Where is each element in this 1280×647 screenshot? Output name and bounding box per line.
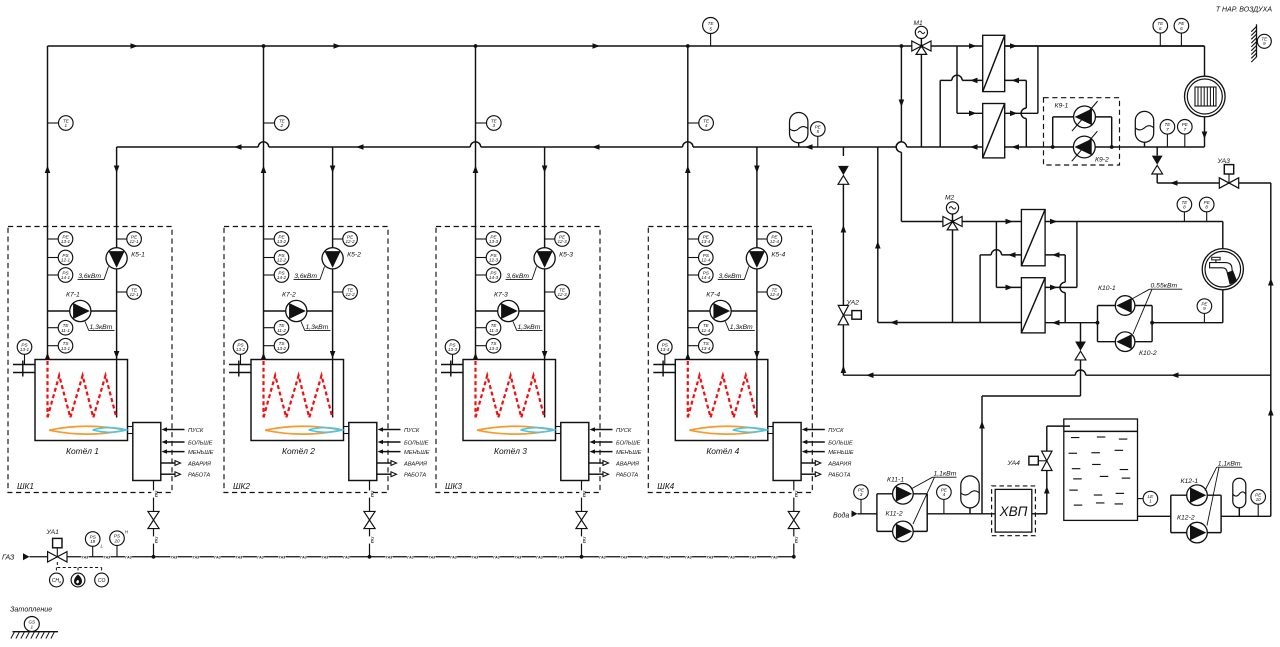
svg-text:ГАЗ: ГАЗ — [664, 555, 671, 559]
svg-text:ГАЗ: ГАЗ — [558, 555, 565, 559]
gas line mark — [151, 536, 155, 543]
HX4 primary inlet branch — [995, 222, 997, 288]
svg-text:3,6кВт: 3,6кВт — [506, 273, 529, 280]
svg-text:4: 4 — [705, 123, 708, 128]
sensor TE11-3 — [476, 327, 487, 329]
pump group K11 parallel branch — [876, 494, 878, 532]
boiler 4 body — [675, 360, 768, 441]
pump K7-2 recirculation line — [264, 310, 333, 312]
radiator supply drop — [1204, 46, 1206, 76]
feed water pipe — [858, 513, 877, 515]
pump K12-2 — [1187, 522, 1208, 543]
svg-text:ШК2: ШК2 — [233, 482, 250, 491]
svg-text:CO: CO — [98, 578, 106, 584]
boiler 4 outlet pipe (left riser) — [687, 46, 689, 360]
gas line mark — [557, 555, 564, 559]
HX2 secondary supply arrow — [1010, 111, 1018, 117]
svg-text:ПУСК: ПУСК — [616, 428, 632, 434]
boiler 1 burner flame orange — [49, 426, 126, 434]
HX2 secondary return arrow — [1012, 144, 1020, 150]
boiler 4 heating element red coil — [687, 361, 689, 418]
boiler 4 burner flame blue — [733, 428, 767, 433]
svg-text:ГАЗ: ГАЗ — [386, 555, 393, 559]
svg-text:К9-2: К9-2 — [1095, 157, 1109, 164]
boiler 4 gas drop from control box — [793, 481, 795, 512]
boiler 1 outlet pipe (left riser) — [47, 46, 49, 360]
gas line mark — [450, 555, 457, 559]
flood sensor ground — [13, 631, 59, 633]
sensor PE12-3 — [476, 238, 487, 240]
tank water dashes — [1071, 437, 1080, 439]
HX1 secondary return arrow — [1012, 78, 1020, 84]
boiler 3 control box — [561, 423, 589, 481]
node gas main junction boiler 3 — [580, 555, 584, 559]
return header pipe — [117, 146, 259, 148]
svg-text:МЕНЬШЕ: МЕНЬШЕ — [616, 450, 642, 456]
svg-text:ШК1: ШК1 — [17, 482, 34, 491]
boiler 3 signal РАБОТА — [589, 473, 603, 475]
svg-text:ГАЗ: ГАЗ — [214, 555, 221, 559]
return flow arrow 4 — [805, 144, 813, 150]
boiler 2 body — [251, 360, 344, 441]
HX4 primary inlet arrow — [1006, 285, 1014, 291]
sensor PS12-1 — [48, 257, 59, 259]
svg-text:ШК3: ШК3 — [445, 482, 462, 491]
check valve on make-up riser — [838, 166, 849, 175]
pump K11-2 — [893, 521, 914, 542]
HX3 secondary return arrow — [1052, 252, 1060, 258]
svg-text:ГАЗ: ГАЗ — [599, 555, 606, 559]
svg-text:20: 20 — [113, 538, 120, 543]
heat exchanger HX4 — [1021, 278, 1045, 333]
sensor TE1 on boiler 1 outlet — [48, 122, 59, 124]
boiler 1 inlet flow arrow upper — [114, 166, 120, 174]
gas line mark — [536, 555, 543, 559]
svg-text:ГАЗ: ГАЗ — [82, 555, 89, 559]
svg-text:ГАЗ: ГАЗ — [154, 491, 158, 498]
heat exchanger HX3 — [1021, 210, 1045, 266]
tap return drop — [1222, 290, 1224, 323]
gas line mark — [749, 555, 756, 559]
sensor TE3 on boiler 3 outlet — [476, 122, 487, 124]
boiler 1 control box — [133, 423, 161, 481]
make-up riser to return header — [842, 147, 844, 156]
node gas main junction boiler 4 — [792, 555, 796, 559]
svg-text:К9-1: К9-1 — [1055, 103, 1069, 110]
pump K7-4 recirculation line — [688, 310, 757, 312]
svg-text:3: 3 — [860, 492, 863, 497]
pump K5-2 boiler circulation — [322, 248, 343, 269]
boiler 1 body — [35, 360, 128, 441]
boiler 3 gas shut-off valve — [576, 511, 587, 520]
HX2 primary inlet arrow — [969, 111, 977, 117]
svg-text:12-3: 12-3 — [557, 292, 567, 297]
boiler 1 inlet pipe (right drop) — [116, 147, 118, 360]
boiler 2 outlet flow arrow lower — [261, 353, 267, 361]
boiler 2 gas stub with flange — [229, 364, 251, 366]
boiler 4 signal ПУСК — [807, 429, 825, 431]
treated water arrow — [1044, 486, 1050, 494]
svg-text:ГАЗ: ГАЗ — [472, 555, 479, 559]
gas line mark — [642, 555, 649, 559]
boiler 1 outlet flow arrow upper — [45, 166, 51, 174]
gas line mark — [579, 536, 583, 543]
expansion vessel radiator circuit — [1135, 111, 1153, 142]
sensor PS13-4 burner pressure — [664, 355, 666, 365]
boiler 3 outlet flow arrow lower — [473, 353, 479, 361]
boiler 2 heating element red coil — [262, 361, 264, 418]
boiler 3 signal БОЛЬШЕ — [595, 441, 613, 443]
sensor TE5 on supply header — [710, 34, 712, 47]
make-up riser arrow upper — [1268, 278, 1274, 286]
DHW primary return riser — [877, 147, 879, 323]
gas line mark — [343, 555, 350, 559]
sensor PE4 — [943, 500, 945, 514]
boiler 1 burner link lines — [128, 426, 133, 428]
svg-text:ГАЗ: ГАЗ — [728, 555, 735, 559]
svg-text:13-1: 13-1 — [61, 346, 71, 351]
sensor PE12-2 on inlet — [333, 238, 344, 240]
boiler 3 burner flame orange — [477, 426, 554, 434]
svg-text:12-3: 12-3 — [557, 239, 567, 244]
boiler 4 gas stub with flange — [653, 364, 675, 366]
return header hop over x=475 — [470, 142, 480, 147]
svg-text:3,6кВт: 3,6кВт — [719, 273, 742, 280]
node supply-M2 branch — [900, 44, 904, 48]
sensor PS19 gas pressure low — [92, 546, 94, 557]
svg-text:К12-2: К12-2 — [1177, 515, 1195, 522]
svg-text:13-1: 13-1 — [61, 239, 71, 244]
boiler 3 burner flame blue — [521, 428, 555, 433]
boiler 2 burner flame orange — [265, 426, 342, 434]
svg-text:ГАЗ: ГАЗ — [794, 491, 798, 498]
boiler unit 2 enclosure ШК2 dashed box — [224, 227, 388, 493]
HX1 primary inlet arrow — [969, 43, 977, 49]
heat exchanger HX1 — [983, 35, 1005, 91]
svg-text:ГАЗ: ГАЗ — [771, 555, 778, 559]
gas line mark — [103, 555, 110, 559]
supply header pipe — [48, 45, 983, 47]
svg-text:12-4: 12-4 — [701, 258, 711, 263]
boiler unit 3 enclosure ШК3 dashed box — [436, 227, 600, 493]
boiler 4 inlet flow arrow upper — [754, 166, 760, 174]
sensor PE12-1 — [48, 238, 59, 240]
sensor TS13-2 — [264, 345, 275, 347]
supply flow arrow 1 — [131, 43, 139, 49]
boiler 1 heating element red coil — [46, 361, 48, 418]
sensor PE8 — [1206, 212, 1208, 222]
boiler 2 outlet flow arrow upper — [261, 166, 267, 174]
M1 bypass stem to return — [920, 54, 922, 147]
svg-text:УА1: УА1 — [46, 529, 60, 536]
svg-text:11-4: 11-4 — [701, 328, 710, 333]
boiler 4 burner link lines — [768, 426, 773, 428]
gas line mark — [428, 555, 435, 559]
return flow arrow 3 — [592, 144, 600, 150]
gas line mark — [471, 555, 478, 559]
svg-text:11-1: 11-1 — [61, 328, 70, 333]
flood sensor GS — [24, 617, 39, 632]
svg-text:ГАЗ: ГАЗ — [536, 555, 543, 559]
sensor PS14-4 — [688, 274, 699, 276]
svg-text:К7-2: К7-2 — [282, 292, 296, 299]
gas line mark — [792, 490, 796, 497]
make-up arrow right — [1171, 372, 1179, 378]
svg-text:АВАРИЯ: АВАРИЯ — [827, 461, 851, 467]
boiler 3 inlet flow arrow lower — [542, 351, 548, 359]
gas inlet arrow — [23, 553, 30, 560]
boiler 4 outlet flow arrow upper — [685, 166, 691, 174]
sensor TE8 — [1183, 212, 1185, 222]
boiler 1 signal АВАРИЯ — [161, 462, 175, 464]
boiler 4 outlet flow arrow lower — [685, 353, 691, 361]
svg-text:БОЛЬШЕ: БОЛЬШЕ — [188, 440, 213, 446]
svg-text:4: 4 — [943, 492, 946, 497]
boiler 3 heating element red coil — [474, 361, 476, 418]
svg-text:Котёл 3: Котёл 3 — [494, 446, 527, 456]
return flow arrow 1 — [234, 144, 242, 150]
gas line mark — [663, 555, 670, 559]
gas line mark — [278, 555, 285, 559]
boiler 3 burner link lines — [556, 426, 561, 428]
radiator return drop — [1204, 117, 1206, 147]
svg-text:К7-1: К7-1 — [66, 292, 80, 299]
gas line mark — [514, 555, 521, 559]
svg-text:ГАЗ: ГАЗ — [343, 555, 350, 559]
svg-text:ШК4: ШК4 — [657, 482, 674, 491]
svg-text:7: 7 — [1184, 127, 1187, 132]
svg-text:14-2: 14-2 — [277, 275, 287, 280]
sensor TE2 on boiler 2 outlet — [264, 122, 275, 124]
boiler 4 burner flame orange — [689, 426, 766, 434]
svg-text:К7-4: К7-4 — [706, 292, 720, 299]
boiler 1 signal ПУСК — [167, 429, 185, 431]
boiler 3 body — [463, 360, 556, 441]
sensor PS13-1 burner pressure — [24, 355, 26, 365]
svg-text:ГАЗ: ГАЗ — [370, 537, 374, 544]
svg-text:11-2: 11-2 — [277, 328, 286, 333]
HX3 primary outlet pipe — [1002, 254, 1022, 256]
svg-text:ГАЗ: ГАЗ — [257, 555, 264, 559]
sensor PS14-1 — [48, 274, 59, 276]
boiler 3 inlet pipe (right drop) — [544, 147, 546, 360]
sensor PE12-4 on inlet — [757, 238, 768, 240]
DHW cold make-up check valve — [1080, 323, 1082, 342]
boiler 4 control box — [773, 423, 801, 481]
boiler 1 inlet flow arrow lower — [114, 351, 120, 359]
make-up riser arrow above УА2 — [841, 225, 847, 233]
radiator return arrow — [1202, 132, 1208, 140]
node supply-boiler4 — [686, 44, 690, 48]
gas line mark — [321, 555, 328, 559]
return header hop over x=901 — [896, 142, 906, 147]
svg-text:1: 1 — [65, 123, 68, 128]
sensor PS13-2 burner pressure — [240, 355, 242, 365]
boiler 2 inlet flow arrow lower — [330, 351, 336, 359]
svg-text:TE: TE — [708, 21, 715, 26]
HX1 primary outlet pipe — [962, 79, 983, 81]
gas line mark — [728, 555, 735, 559]
pump group K9 dashed box — [1044, 98, 1120, 165]
boiler 2 gas shut-off valve — [364, 511, 375, 520]
secondary return drop to HX1 — [1025, 80, 1027, 108]
boiler 2 control box — [349, 423, 377, 481]
solenoid valve УА1 on gas main — [48, 552, 67, 562]
gas line mark — [192, 555, 199, 559]
boiler 2 signal МЕНЬШЕ — [383, 451, 401, 453]
svg-text:ГАЗ: ГАЗ — [104, 555, 111, 559]
svg-text:МЕНЬШЕ: МЕНЬШЕ — [404, 450, 430, 456]
boiler 2 inlet flow arrow upper — [330, 166, 336, 174]
sensor TE12-2 on inlet — [333, 291, 344, 293]
make-up arrow left — [866, 372, 874, 378]
boiler 3 inlet flow arrow upper — [542, 166, 548, 174]
gas line mark — [151, 490, 155, 497]
boiler 1 burner flame blue — [93, 428, 127, 433]
gas line mark — [706, 555, 713, 559]
svg-text:ГАЗ: ГАЗ — [685, 555, 692, 559]
svg-text:М1: М1 — [914, 20, 923, 27]
svg-text:12-4: 12-4 — [770, 292, 780, 297]
HX1 secondary supply arrow — [1010, 43, 1018, 49]
svg-text:РАБОТА: РАБОТА — [404, 473, 426, 479]
gas line mark — [620, 555, 627, 559]
svg-text:ГАЗ: ГАЗ — [642, 555, 649, 559]
svg-text:19: 19 — [90, 539, 96, 544]
svg-text:3: 3 — [493, 123, 496, 128]
tank outlet pipe — [1138, 515, 1171, 517]
pump K5-3 boiler circulation — [534, 248, 555, 269]
svg-text:К5-1: К5-1 — [131, 252, 145, 259]
svg-text:Т НАР. ВОЗДУХА: Т НАР. ВОЗДУХА — [1216, 7, 1273, 14]
svg-text:МЕНЬШЕ: МЕНЬШЕ — [188, 450, 214, 456]
svg-text:12-1: 12-1 — [61, 258, 71, 263]
make-up riser arrow lower — [1268, 408, 1274, 416]
pump K5-4 boiler circulation — [746, 248, 767, 269]
pump group K10 parallel branch — [1097, 306, 1099, 342]
boiler 1 gas shut-off valve — [148, 511, 159, 520]
make-up line to УА3 — [1157, 182, 1271, 184]
svg-text:РАБОТА: РАБОТА — [616, 473, 638, 479]
sensor TE12-3 on inlet — [545, 291, 556, 293]
svg-text:К10-1: К10-1 — [1098, 285, 1116, 292]
HX3 primary inlet pipe — [962, 221, 1021, 223]
sensor TE12-4 on inlet — [757, 291, 768, 293]
svg-text:ГАЗ: ГАЗ — [322, 555, 329, 559]
svg-text:6: 6 — [1159, 26, 1162, 31]
pump K11-1 — [893, 484, 914, 505]
HX2 secondary supply pipe — [1005, 112, 1038, 114]
supply flow arrow 2 — [334, 43, 342, 49]
outside wall hatching — [1256, 24, 1258, 57]
svg-text:13-2: 13-2 — [236, 347, 246, 352]
flame detector — [71, 573, 85, 587]
pump K5-1 boiler circulation — [106, 248, 127, 269]
svg-text:1,1кВт: 1,1кВт — [1218, 461, 1241, 468]
svg-text:К5-3: К5-3 — [559, 252, 573, 259]
boiler 2 gas drop from control box — [369, 481, 371, 512]
HX4 secondary return arrow — [1052, 320, 1060, 326]
node supply-boiler3 — [474, 44, 478, 48]
sensor PE12-2 — [264, 238, 275, 240]
boiler 1 outlet flow arrow lower — [45, 353, 51, 361]
sensor TE4 on boiler 4 outlet — [688, 122, 699, 124]
svg-text:8: 8 — [1183, 205, 1186, 210]
sensor PS12-2 — [264, 257, 275, 259]
svg-text:ГАЗ: ГАЗ — [493, 555, 500, 559]
boiler 1 signal МЕНЬШЕ — [167, 451, 185, 453]
gas line mark — [579, 490, 583, 497]
supply flow arrow 3 — [593, 43, 601, 49]
pump K7-3 — [498, 300, 519, 321]
pump K10-2 — [1115, 332, 1135, 352]
boiler 4 inlet flow arrow lower — [754, 351, 760, 359]
svg-text:УА3: УА3 — [1217, 158, 1231, 165]
sensor TE11-4 — [688, 327, 699, 329]
svg-text:АВАРИЯ: АВАРИЯ — [187, 461, 211, 467]
sensor PE7 — [1184, 134, 1186, 147]
svg-text:М2: М2 — [945, 195, 954, 202]
boiler 4 gas shut-off valve — [788, 511, 799, 520]
node gas main junction boiler 1 — [152, 555, 156, 559]
svg-text:7: 7 — [1166, 127, 1169, 132]
secondary return hop over HX2 supply — [1021, 108, 1026, 118]
boiler 3 gas stub with flange — [441, 364, 463, 366]
M2 branch drop hop over return header — [896, 142, 901, 152]
gas line mark — [599, 555, 606, 559]
svg-text:ГАЗ: ГАЗ — [621, 555, 628, 559]
gas line mark — [257, 555, 264, 559]
radiator circuit return pipe — [1112, 146, 1205, 148]
svg-text:9: 9 — [1203, 306, 1206, 311]
pump K7-2 — [286, 300, 307, 321]
svg-text:ГАЗ: ГАЗ — [193, 555, 200, 559]
boiler 1 gas drop from control box — [153, 481, 155, 512]
gas line mark — [385, 555, 392, 559]
svg-text:1: 1 — [31, 624, 34, 629]
boiler 1 gas stub with flange — [13, 364, 35, 366]
gas line mark — [125, 555, 132, 559]
sensor PS13-3 burner pressure — [452, 355, 454, 365]
svg-text:ГАЗ: ГАЗ — [450, 555, 457, 559]
gas line mark — [685, 555, 692, 559]
boiler 3 outlet flow arrow upper — [473, 166, 479, 174]
sensor PE9 — [1203, 313, 1205, 322]
3-way mixing valve M2 — [943, 217, 953, 227]
svg-text:12-4: 12-4 — [770, 239, 780, 244]
boiler 2 signal БОЛЬШЕ — [383, 441, 401, 443]
boiler 3 outlet pipe (left riser) — [475, 46, 477, 360]
svg-text:9: 9 — [1263, 41, 1266, 46]
HX4 secondary supply arrow — [1050, 285, 1058, 291]
svg-text:ПУСК: ПУСК — [188, 428, 204, 434]
sensor PS14-3 — [476, 274, 487, 276]
expansion vessel on return header — [790, 112, 808, 142]
node K9 right — [1110, 145, 1114, 149]
svg-text:ГАЗ: ГАЗ — [407, 555, 414, 559]
return header hop over x=263 — [258, 142, 268, 147]
svg-text:Котёл 4: Котёл 4 — [706, 446, 739, 456]
gas main pipe — [30, 556, 48, 558]
sensor PE12-4 — [688, 238, 699, 240]
pump K9 parallel branch — [1052, 117, 1054, 147]
tap hot water supply drop — [1222, 222, 1224, 249]
svg-text:14-4: 14-4 — [701, 275, 711, 280]
expansion vessel feed line — [961, 476, 979, 508]
sensor TE7 — [1166, 134, 1168, 147]
svg-text:13-2: 13-2 — [277, 346, 287, 351]
pump K7-3 recirculation line — [476, 310, 545, 312]
